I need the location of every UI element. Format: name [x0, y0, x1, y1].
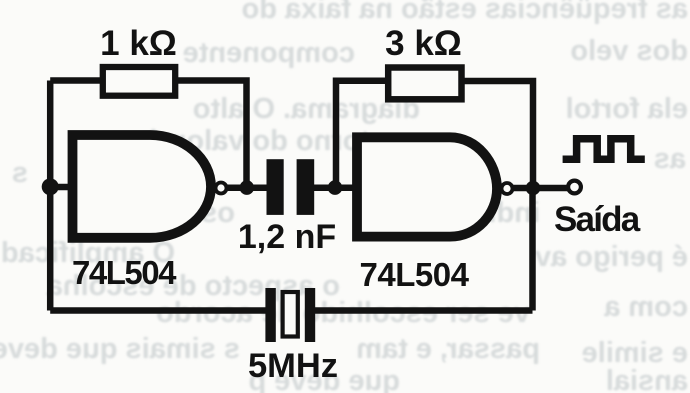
svg-text:74L504: 74L504: [72, 254, 177, 291]
svg-text:Saída: Saída: [554, 200, 641, 239]
svg-text:5MHz: 5MHz: [248, 347, 338, 385]
wire: top-left horizontal to R1: [50, 77, 104, 84]
wire: node C down to bottom rail: [529, 188, 536, 311]
node B (R1/C1 junction): [240, 180, 255, 195]
U1 output bubble: [216, 183, 227, 194]
crystal X1 plates: [265, 288, 315, 342]
svg-text:passar, e tam: passar, e tam: [356, 333, 540, 365]
svg-text:1,2 nF: 1,2 nF: [238, 218, 336, 256]
wire: R2 right down to node C: [462, 81, 533, 188]
node A (U1 input junction): [42, 178, 59, 195]
svg-text:as freqüências estão na faixa: as freqüências estão na faixa do: [242, 0, 688, 25]
svg-text:74L504: 74L504: [360, 256, 470, 293]
svg-text:as: as: [654, 143, 686, 175]
svg-text:com a: com a: [603, 291, 688, 323]
wire: U2 output to output terminal: [512, 185, 568, 192]
svg-text:1 kΩ: 1 kΩ: [100, 24, 177, 63]
node D (C1/U2 input junction): [328, 180, 343, 195]
square wave symbol: [563, 139, 645, 160]
svg-text:ansial: ansial: [606, 365, 688, 393]
resistor R1 body: [103, 67, 175, 96]
svg-text:ela fortol: ela fortol: [566, 93, 688, 125]
svg-text:componente: componente: [183, 37, 355, 69]
svg-text:3 kΩ: 3 kΩ: [385, 24, 462, 63]
wire: gate U1 input: [47, 184, 70, 191]
wire: left feedback vertical (R1/XTAL loop): [47, 81, 54, 311]
wire: node B up to R2 left: [336, 81, 390, 188]
crystal X1 body: [283, 292, 298, 337]
svg-text:s: s: [12, 157, 28, 189]
wire: U1 output bubble to capacitor C1: [227, 184, 268, 191]
wire: bottom rail left (to crystal): [50, 307, 268, 314]
output terminal circle: [568, 181, 581, 194]
wire: capacitor C1 to gate U2 input: [313, 184, 353, 191]
inverter gate U1: [73, 135, 212, 238]
inverter gate U2: [357, 137, 497, 236]
U2 output bubble: [502, 183, 513, 194]
resistor R2 body: [388, 68, 461, 100]
capacitor C1 plates: [267, 159, 315, 215]
svg-text:dos velo: dos velo: [570, 35, 688, 67]
wire: bottom rail right (crystal to node C leg): [313, 307, 533, 314]
wire: R1 right to junction, down to node A: [176, 81, 247, 188]
svg-text:é perigo av: é perigo av: [535, 241, 688, 273]
node C (U2 output junction): [526, 181, 541, 196]
svg-text:s simais que devem: s simais que devem: [0, 333, 240, 365]
